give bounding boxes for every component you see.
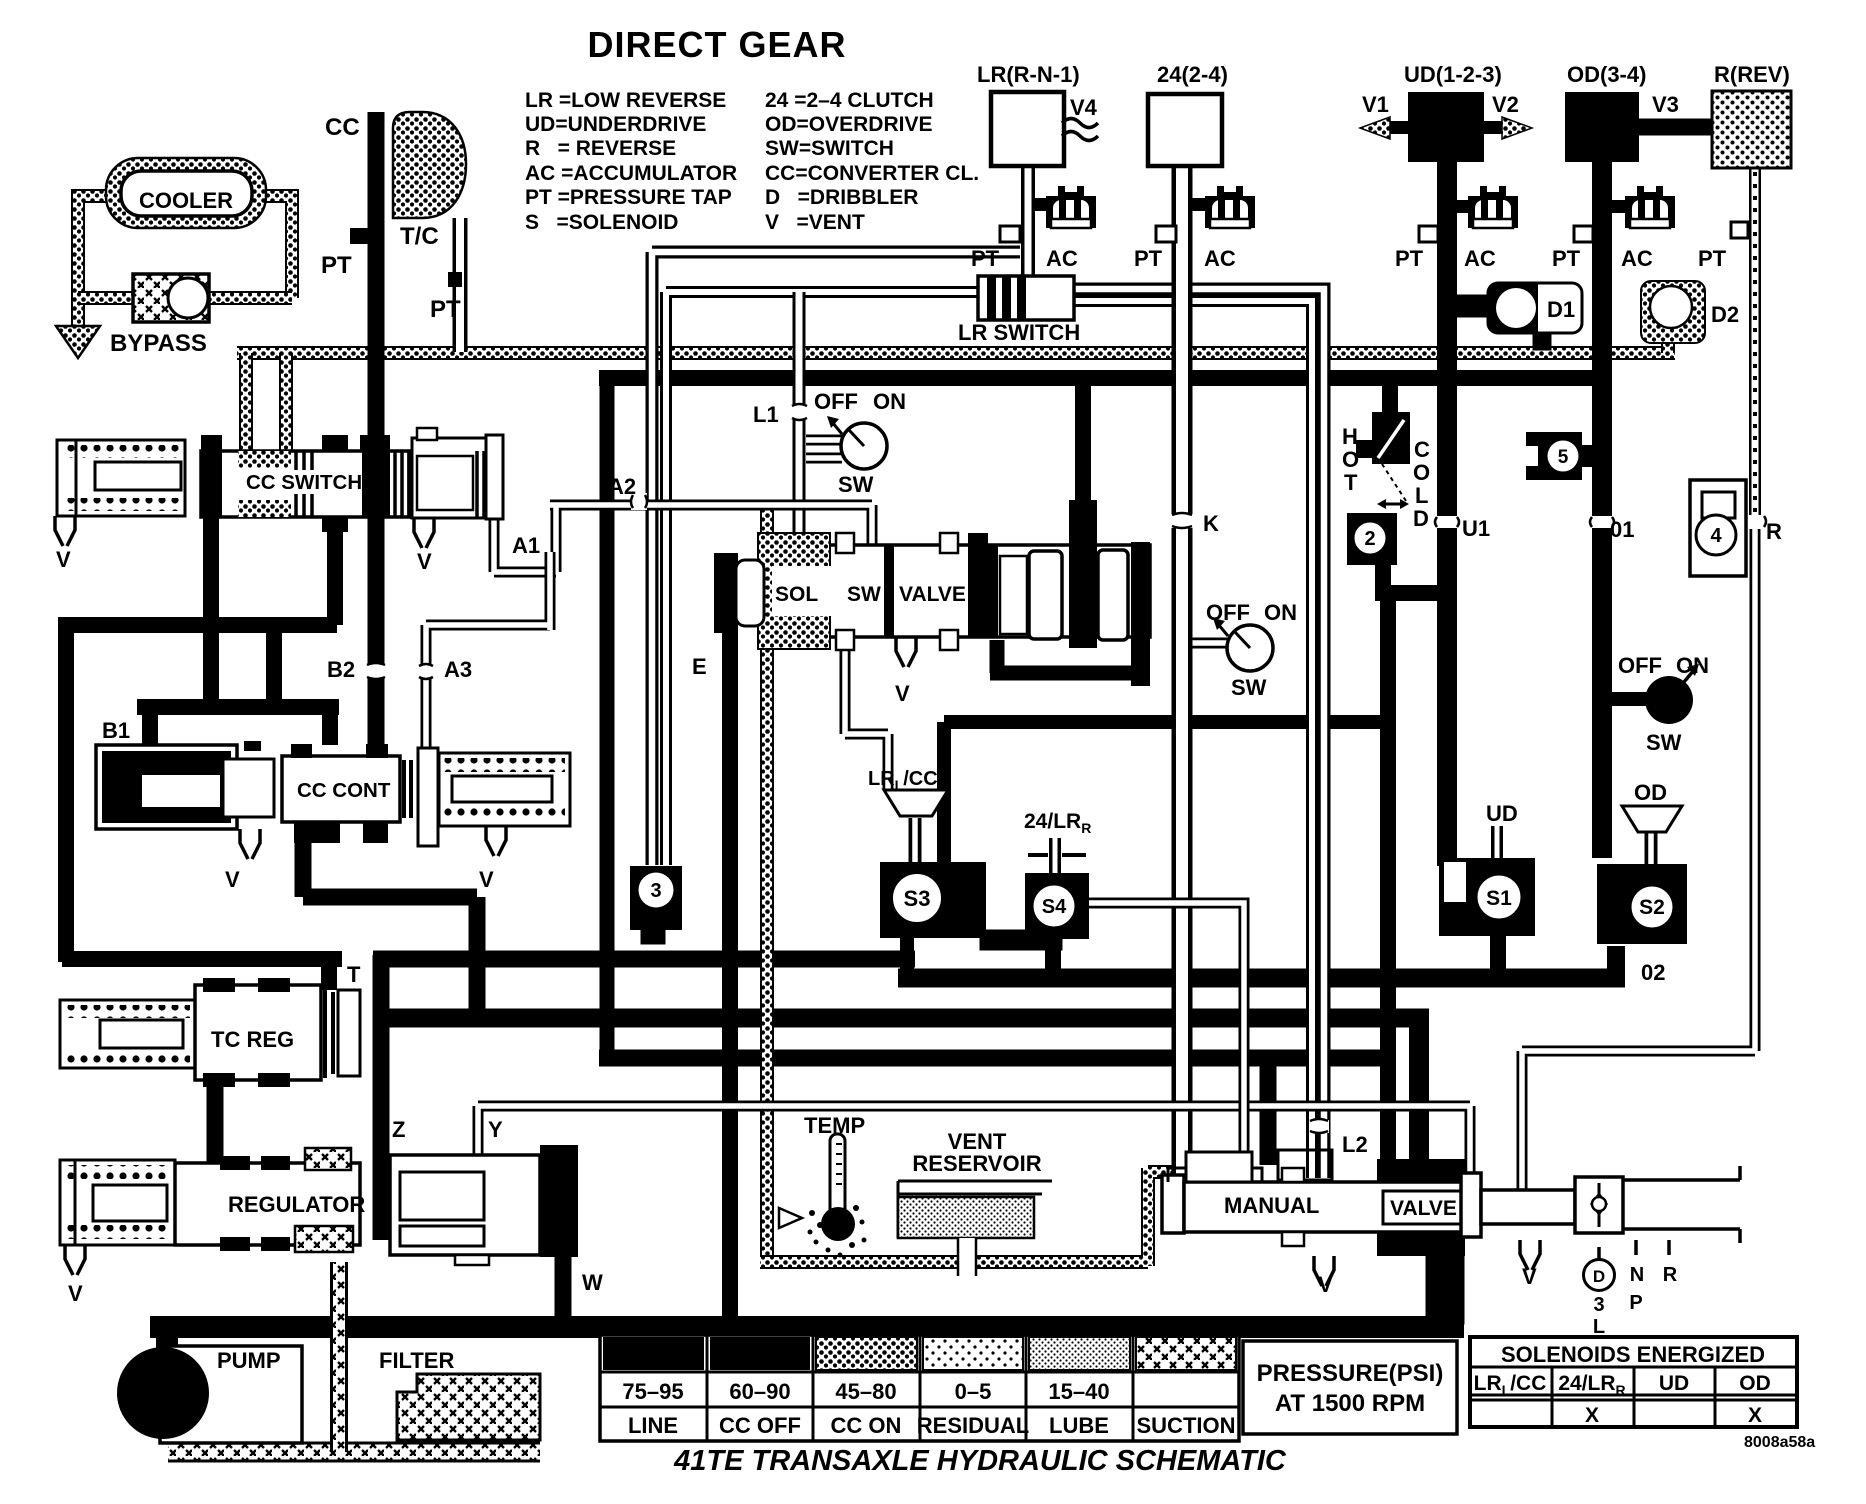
wire R residual dotted line bbox=[1749, 168, 1761, 515]
wire manual valve to trunk drop bbox=[1426, 1248, 1464, 1324]
valve TC REG body bbox=[195, 985, 321, 1080]
temp thermometer bbox=[779, 1208, 802, 1228]
pump housing bbox=[160, 1346, 302, 1443]
valve BYPASS bbox=[133, 274, 209, 322]
svg-text:ON: ON bbox=[873, 389, 906, 414]
wire SOL valve feed bbox=[1075, 386, 1091, 505]
wire TC REG drop bbox=[207, 1078, 224, 1165]
wire D1 stubs bbox=[1457, 295, 1492, 317]
svg-text:R: R bbox=[1766, 519, 1782, 544]
vent V2 stipple arrow bbox=[1484, 121, 1502, 134]
svg-text:UD: UD bbox=[1486, 801, 1518, 826]
valve black blocks bbox=[968, 545, 998, 637]
svg-text:PT: PT bbox=[430, 296, 461, 323]
valve MANUAL top flares bbox=[1168, 1168, 1262, 1182]
dribbler D2 bbox=[1641, 281, 1705, 343]
svg-text:SW: SW bbox=[1231, 675, 1267, 700]
svg-text:COOLER: COOLER bbox=[139, 188, 233, 213]
svg-text:DIRECT GEAR: DIRECT GEAR bbox=[587, 24, 846, 65]
svg-text:D1: D1 bbox=[1547, 297, 1575, 322]
valve REGULATOR right spool bbox=[390, 1155, 540, 1255]
svg-text:8008a58a: 8008a58a bbox=[1744, 1434, 1815, 1451]
svg-text:3: 3 bbox=[1593, 1294, 1604, 1316]
wire H0a horizontal bbox=[373, 1009, 1429, 1028]
wire SW2 tap stub bbox=[1191, 638, 1231, 649]
svg-text:V =VENT: V =VENT bbox=[765, 211, 865, 234]
svg-text:L2: L2 bbox=[1342, 1132, 1368, 1157]
svg-text:D2: D2 bbox=[1711, 302, 1739, 327]
dribbler D1 bbox=[1488, 283, 1582, 333]
valve TC REG left spring housing bbox=[60, 1000, 195, 1068]
svg-text:OFF: OFF bbox=[1618, 653, 1662, 678]
svg-text:T/C: T/C bbox=[400, 223, 439, 250]
node U1 break bbox=[1435, 516, 1459, 528]
svg-text:LRL/CC: LRL/CC bbox=[868, 768, 938, 793]
svg-text:RESIDUAL: RESIDUAL bbox=[917, 1413, 1029, 1438]
svg-text:PT: PT bbox=[1395, 246, 1424, 271]
wire stippled main CC-ON trunk bbox=[237, 346, 1675, 360]
wire 958 line to S3 bbox=[373, 951, 915, 968]
svg-text:A3: A3 bbox=[444, 657, 472, 682]
svg-text:R = REVERSE: R = REVERSE bbox=[525, 137, 676, 160]
svg-text:UD=UNDERDRIVE: UD=UNDERDRIVE bbox=[525, 113, 706, 136]
svg-text:LR(R-N-1): LR(R-N-1) bbox=[977, 62, 1080, 87]
valve REGULATOR body bbox=[175, 1163, 360, 1245]
vent V1 stipple arrow bbox=[1390, 121, 1408, 134]
svg-text:W: W bbox=[582, 1270, 603, 1295]
svg-text:LRL/CC: LRL/CC bbox=[1474, 1372, 1547, 1398]
node PT tap OD bbox=[1574, 226, 1593, 242]
svg-text:S3: S3 bbox=[904, 886, 931, 911]
svg-text:ON: ON bbox=[1676, 653, 1709, 678]
svg-text:S =SOLENOID: S =SOLENOID bbox=[525, 211, 678, 234]
wire bottom pump trunk bbox=[150, 1327, 1464, 1350]
svg-text:SW: SW bbox=[1646, 730, 1682, 755]
wire right SW stub bbox=[1602, 692, 1648, 706]
svg-text:02: 02 bbox=[1641, 960, 1665, 985]
valve CC CONT housing bbox=[96, 745, 237, 829]
wire 24 clutch trunk pipe bbox=[1172, 166, 1193, 1178]
svg-text:FILTER: FILTER bbox=[379, 1348, 454, 1373]
wire 2-box elbow and V2 bbox=[1375, 550, 1450, 1165]
svg-text:TC REG: TC REG bbox=[211, 1027, 294, 1052]
svg-text:AC: AC bbox=[1204, 246, 1236, 271]
wire cooler left stipple + arrow bbox=[78, 196, 118, 326]
valve 4 check assembly bbox=[1690, 480, 1746, 576]
thermal valve arrow bbox=[1384, 503, 1402, 506]
filter block bbox=[397, 1374, 540, 1440]
node L2 break bbox=[1309, 1120, 1329, 1133]
svg-text:A1: A1 bbox=[512, 533, 540, 558]
node PT tap on CC line bbox=[350, 228, 368, 244]
wire manual valve feed drop bbox=[1409, 1018, 1429, 1165]
svg-text:CC SWITCH: CC SWITCH bbox=[246, 471, 362, 494]
svg-text:SOLENOIDS ENERGIZED: SOLENOIDS ENERGIZED bbox=[1501, 1342, 1765, 1367]
wire thermal valve top stub bbox=[1382, 386, 1398, 415]
svg-text:OD(3-4): OD(3-4) bbox=[1567, 62, 1646, 87]
wire LR switch right pipe outer bbox=[1058, 289, 1324, 1178]
svg-text:OD: OD bbox=[1739, 1372, 1771, 1395]
svg-text:LR =LOW REVERSE: LR =LOW REVERSE bbox=[525, 89, 726, 112]
vent V below CC CONT left bbox=[240, 829, 260, 859]
svg-text:S2: S2 bbox=[1639, 896, 1665, 919]
wire LR switch right pipe inner bbox=[1058, 301, 1312, 1178]
svg-text:O: O bbox=[1413, 460, 1430, 485]
svg-text:LUBE: LUBE bbox=[1049, 1413, 1109, 1438]
valve 2 thermal box bbox=[1347, 513, 1397, 565]
valve CC CONT right spring housing bbox=[404, 760, 411, 818]
svg-text:SOL: SOL bbox=[775, 583, 818, 606]
clutch box LR(R-N-1) bbox=[991, 92, 1064, 166]
svg-text:3: 3 bbox=[650, 880, 661, 902]
node PT tap R bbox=[1731, 222, 1748, 238]
svg-text:V: V bbox=[68, 1281, 83, 1306]
svg-text:MANUAL: MANUAL bbox=[1224, 1193, 1319, 1218]
svg-text:OD: OD bbox=[1634, 780, 1667, 805]
svg-text:SUCTION: SUCTION bbox=[1137, 1413, 1236, 1438]
switch LR SWITCH body bbox=[978, 276, 1074, 320]
vent V below CC SWITCH right bbox=[414, 518, 434, 548]
svg-text:V4: V4 bbox=[1070, 95, 1098, 120]
svg-text:D: D bbox=[1413, 506, 1429, 531]
svg-text:AC =ACCUMULATOR: AC =ACCUMULATOR bbox=[525, 162, 737, 185]
svg-text:S4: S4 bbox=[1042, 896, 1067, 918]
legend table pressures bbox=[600, 1335, 1239, 1441]
valve 5 box bbox=[1526, 432, 1582, 480]
wire AC stub UD bbox=[1455, 200, 1470, 213]
valve spool pistons bbox=[1029, 551, 1062, 639]
solenoid S4 bbox=[1025, 873, 1089, 939]
svg-text:45–80: 45–80 bbox=[835, 1379, 896, 1404]
node PT tap LR bbox=[1000, 226, 1020, 242]
wire SW1 lower stub bbox=[806, 453, 842, 464]
svg-text:V1: V1 bbox=[1362, 92, 1389, 117]
svg-text:X: X bbox=[1585, 1404, 1599, 1427]
wire UD trunk bbox=[1437, 160, 1457, 866]
wire AC stub OD bbox=[1610, 200, 1627, 213]
svg-text:E: E bbox=[692, 654, 707, 679]
svg-text:V: V bbox=[417, 549, 432, 574]
accumulator AC (UD) bbox=[1468, 186, 1518, 228]
svg-text:TEMP: TEMP bbox=[804, 1113, 865, 1138]
legend solenoids table bbox=[1470, 1337, 1797, 1427]
wire S2 funnel stem bbox=[1645, 830, 1658, 895]
wire suction vertical to regulator bbox=[330, 1262, 348, 1452]
node A2 break bbox=[631, 493, 647, 510]
wire S1 needle bbox=[1491, 826, 1503, 885]
vent V below CC CONT right bbox=[486, 826, 506, 856]
svg-text:REGULATOR: REGULATOR bbox=[228, 1192, 365, 1217]
wire CC CONT bottom path bbox=[303, 843, 477, 1018]
wire SW section to LR/CC funnel pipe bbox=[845, 645, 888, 790]
svg-text:P: P bbox=[1629, 1292, 1642, 1314]
svg-text:D =DRIBBLER: D =DRIBBLER bbox=[765, 186, 918, 209]
wire CC / B2 vertical bbox=[368, 112, 385, 757]
valve MANUAL right cap bbox=[1461, 1173, 1481, 1237]
wire 5-box stub bbox=[1578, 445, 1602, 467]
check valve box bbox=[1575, 1177, 1623, 1233]
svg-text:PT: PT bbox=[1134, 246, 1163, 271]
wire S3 stem bbox=[900, 935, 914, 978]
valve VALVE black section bbox=[1377, 1159, 1465, 1183]
clutch box UD(1-2-3) bbox=[1408, 92, 1484, 162]
valve TC REG right rings bbox=[325, 988, 333, 1078]
svg-text:T: T bbox=[1344, 470, 1358, 495]
svg-text:O: O bbox=[1342, 447, 1359, 472]
wire E line bbox=[722, 625, 738, 1330]
svg-text:C: C bbox=[1414, 437, 1430, 462]
wire OD to R(REV) bar bbox=[1638, 119, 1718, 135]
clutch box 24(2-4) bbox=[1148, 94, 1222, 166]
svg-text:LINE: LINE bbox=[628, 1413, 678, 1438]
valve CC CONT body bbox=[282, 756, 400, 822]
svg-text:L: L bbox=[1593, 1316, 1605, 1338]
vent V below MANUAL bbox=[1314, 1256, 1334, 1286]
svg-text:S1: S1 bbox=[1486, 887, 1512, 910]
svg-text:24(2-4): 24(2-4) bbox=[1157, 62, 1228, 87]
node PT tap on T/C pipe bbox=[448, 272, 462, 287]
svg-text:OFF: OFF bbox=[814, 389, 858, 414]
svg-text:PUMP: PUMP bbox=[217, 1348, 281, 1373]
svg-text:K: K bbox=[1203, 511, 1219, 536]
wire S3-S4 link bar bbox=[980, 930, 1062, 950]
wire SW1 tap stub bbox=[806, 435, 842, 446]
wire A1-A2 pipe bbox=[494, 505, 872, 572]
wire R line lower bbox=[1522, 529, 1755, 1196]
svg-text:A2: A2 bbox=[608, 474, 636, 499]
svg-text:PT =PRESSURE TAP: PT =PRESSURE TAP bbox=[525, 186, 732, 209]
wire AC stub LR bbox=[1034, 198, 1048, 211]
gear ticks N R bbox=[1599, 1240, 1669, 1259]
vent V below check pipe bbox=[1520, 1240, 1540, 1270]
svg-text:B1: B1 bbox=[102, 718, 130, 743]
switch SW1 (center-left) bbox=[841, 423, 887, 469]
wire S3 riser trunk bbox=[944, 722, 1390, 866]
wire Y pipe to manual valve cap bbox=[478, 1106, 1470, 1180]
svg-text:PRESSURE(PSI): PRESSURE(PSI) bbox=[1257, 1360, 1444, 1387]
node PT tap UD bbox=[1419, 226, 1438, 242]
wire OD trunk bbox=[1592, 160, 1612, 858]
svg-text:AC: AC bbox=[1046, 246, 1078, 271]
svg-text:L1: L1 bbox=[753, 402, 779, 427]
svg-text:60–90: 60–90 bbox=[729, 1379, 790, 1404]
accumulator AC (LR) bbox=[1046, 186, 1096, 228]
svg-text:L: L bbox=[1415, 483, 1428, 508]
svg-text:41TE TRANSAXLE HYDRAULIC SCHEM: 41TE TRANSAXLE HYDRAULIC SCHEMATIC bbox=[673, 1445, 1287, 1477]
wire S1 stem bbox=[1490, 932, 1506, 978]
funnel LR/CC bbox=[884, 790, 948, 816]
wire reservoir stipple bottom/right bbox=[760, 1168, 1174, 1266]
vent V below VALVE bbox=[896, 637, 916, 667]
svg-text:V: V bbox=[56, 547, 71, 572]
svg-text:RESERVOIR: RESERVOIR bbox=[912, 1151, 1041, 1176]
svg-text:75–95: 75–95 bbox=[622, 1379, 683, 1404]
cooler COOLER bbox=[106, 158, 266, 228]
valve CC SWITCH left spring housing bbox=[57, 440, 185, 516]
svg-text:V: V bbox=[225, 867, 240, 892]
svg-text:AC: AC bbox=[1464, 246, 1496, 271]
wire S4 stem bbox=[1045, 938, 1061, 978]
pump circle bbox=[117, 1347, 209, 1439]
svg-text:OFF: OFF bbox=[1206, 600, 1250, 625]
valve MANUAL mid tabs bbox=[1282, 1168, 1304, 1182]
node PT tap 24 bbox=[1156, 226, 1176, 242]
svg-text:V3: V3 bbox=[1652, 92, 1679, 117]
svg-text:UD(1-2-3): UD(1-2-3) bbox=[1404, 62, 1502, 87]
switch SW3 (right, on) bbox=[1645, 676, 1693, 724]
wire A3 pipe bbox=[426, 552, 550, 770]
wire big stipple vertical (SOL to reservoir) bbox=[760, 508, 774, 1262]
wire LR switch inner left pipe to solenoid 3 bbox=[666, 292, 984, 865]
node 01 break bbox=[1590, 516, 1614, 528]
wire bypass stipple left/right bbox=[78, 291, 292, 305]
svg-text:R: R bbox=[1663, 1264, 1678, 1286]
wire cooler right stipple bbox=[263, 196, 292, 298]
svg-text:V: V bbox=[479, 867, 494, 892]
svg-text:VALVE: VALVE bbox=[899, 583, 966, 606]
valve CC SWITCH body bbox=[201, 451, 409, 517]
node B2 break bbox=[366, 664, 386, 678]
node K break bbox=[1171, 514, 1193, 528]
clutch box R(REV) bbox=[1712, 91, 1791, 168]
svg-text:2: 2 bbox=[1364, 528, 1375, 550]
funnel OD bbox=[1622, 806, 1682, 832]
svg-text:UD: UD bbox=[1659, 1372, 1689, 1395]
valve SOL stipple section bbox=[758, 533, 830, 649]
svg-text:PT: PT bbox=[1698, 246, 1727, 271]
svg-text:01: 01 bbox=[1610, 517, 1634, 542]
legend pressure box bbox=[1243, 1341, 1457, 1434]
svg-text:5: 5 bbox=[1558, 447, 1569, 468]
clutch box OD(3-4) bbox=[1565, 92, 1639, 162]
svg-text:SW: SW bbox=[847, 583, 881, 606]
pipe to check valve bbox=[1481, 1190, 1575, 1224]
node A3 break bbox=[418, 664, 434, 679]
wire H0b horizontal bbox=[599, 1050, 1396, 1067]
wire thick trunk T1 bbox=[599, 370, 1609, 386]
svg-text:N: N bbox=[1630, 1264, 1644, 1286]
vent V4 wavy bbox=[1062, 119, 1098, 141]
svg-text:AC: AC bbox=[1621, 246, 1653, 271]
component T/C dome bbox=[393, 112, 466, 218]
svg-text:AT 1500 RPM: AT 1500 RPM bbox=[1275, 1390, 1425, 1417]
svg-text:D: D bbox=[1593, 1267, 1605, 1286]
svg-text:CC OFF: CC OFF bbox=[719, 1413, 801, 1438]
wire S4 pipe to manual valve bbox=[1085, 903, 1244, 1168]
valve CC SWITCH right assembly bbox=[412, 438, 492, 518]
wire left edge path bbox=[58, 510, 337, 962]
accumulator AC (24) bbox=[1205, 186, 1255, 228]
wire stipple branch to CC SWITCH b bbox=[279, 353, 293, 455]
svg-text:PT: PT bbox=[971, 246, 1000, 271]
svg-text:CC: CC bbox=[325, 114, 360, 141]
reservoir tank bbox=[898, 1181, 1052, 1238]
svg-text:Y: Y bbox=[488, 1117, 503, 1142]
solenoid 3 bbox=[630, 866, 682, 930]
wire AC stub 24 bbox=[1191, 198, 1207, 211]
svg-text:V: V bbox=[1522, 1264, 1537, 1289]
wire stipple branch to CC SWITCH a bbox=[239, 353, 253, 455]
svg-text:B2: B2 bbox=[327, 657, 355, 682]
svg-text:CC CONT: CC CONT bbox=[297, 779, 391, 802]
wire B1 bbox=[137, 707, 339, 745]
svg-text:15–40: 15–40 bbox=[1048, 1379, 1109, 1404]
svg-text:BYPASS: BYPASS bbox=[110, 330, 207, 357]
svg-text:SW=SWITCH: SW=SWITCH bbox=[765, 137, 894, 160]
valve left end cap bbox=[714, 553, 738, 633]
valve SOL-SW-VALVE body bbox=[762, 545, 1150, 637]
svg-text:VALVE: VALVE bbox=[1390, 1197, 1457, 1220]
svg-text:CC ON: CC ON bbox=[831, 1413, 902, 1438]
solenoid S1 bbox=[1439, 858, 1535, 936]
check valve outlet lines bbox=[1623, 1166, 1740, 1243]
valve SW section tabs bbox=[836, 533, 854, 553]
vent V below REGULATOR bbox=[65, 1245, 85, 1275]
svg-text:V: V bbox=[1318, 1272, 1333, 1297]
svg-text:24 =2–4 CLUTCH: 24 =2–4 CLUTCH bbox=[765, 89, 934, 112]
wire D2 tail stub bbox=[1661, 336, 1675, 353]
svg-text:V2: V2 bbox=[1492, 92, 1519, 117]
svg-text:H: H bbox=[1342, 424, 1358, 449]
svg-text:PT: PT bbox=[1552, 246, 1581, 271]
svg-text:OD=OVERDRIVE: OD=OVERDRIVE bbox=[765, 113, 932, 136]
svg-text:R(REV): R(REV) bbox=[1714, 62, 1790, 87]
wire valve black U bbox=[990, 640, 1143, 673]
svg-text:CC=CONVERTER CL.: CC=CONVERTER CL. bbox=[765, 162, 979, 185]
svg-text:T: T bbox=[347, 962, 361, 987]
thermal valve HOT/COLD flap bbox=[1372, 412, 1410, 464]
solenoid S2 bbox=[1597, 864, 1687, 944]
svg-text:SW: SW bbox=[838, 472, 874, 497]
wire T/C drain pipe bbox=[453, 218, 468, 352]
wire W line bbox=[555, 1250, 572, 1330]
svg-text:0–5: 0–5 bbox=[955, 1379, 992, 1404]
solenoid S3 bbox=[880, 862, 986, 938]
wire H0b to manual valve drop bbox=[1260, 1058, 1277, 1165]
svg-text:U1: U1 bbox=[1462, 516, 1490, 541]
wire LR clutch pipe down bbox=[1021, 166, 1035, 280]
wire solenoid 3 foot bbox=[641, 928, 665, 944]
svg-text:PT: PT bbox=[321, 252, 352, 279]
node R break bbox=[1744, 515, 1766, 528]
valve MANUAL body bbox=[1162, 1175, 1184, 1233]
wire V1 vertical bbox=[600, 378, 615, 1058]
wire 02 trunk bbox=[898, 969, 1625, 988]
wire Z line bbox=[373, 955, 390, 1240]
vent V below CC SWITCH left bbox=[55, 516, 75, 546]
svg-text:Z: Z bbox=[392, 1117, 405, 1142]
valve REGULATOR left spring housing bbox=[60, 1160, 175, 1245]
switch SW2 (center) bbox=[1227, 625, 1273, 671]
svg-text:V: V bbox=[895, 681, 910, 706]
wire T line bbox=[62, 959, 342, 990]
svg-text:ON: ON bbox=[1264, 600, 1297, 625]
accumulator AC (OD) bbox=[1625, 186, 1675, 228]
gear D circle bbox=[1584, 1260, 1615, 1291]
solenoid S4 wings bbox=[1028, 853, 1086, 857]
wire suction line horizontal bbox=[168, 1442, 540, 1463]
svg-text:LR SWITCH: LR SWITCH bbox=[958, 320, 1080, 345]
wire S4 needle bbox=[1049, 838, 1061, 888]
wire L1 drop to SOL bbox=[793, 292, 806, 548]
wire S3 funnel stem bbox=[909, 818, 922, 866]
node L1 break bbox=[791, 404, 808, 420]
svg-text:X: X bbox=[1748, 1404, 1762, 1427]
wire LR switch outer left pipe to solenoid 3 bbox=[652, 252, 1020, 865]
svg-text:4: 4 bbox=[1710, 525, 1722, 547]
